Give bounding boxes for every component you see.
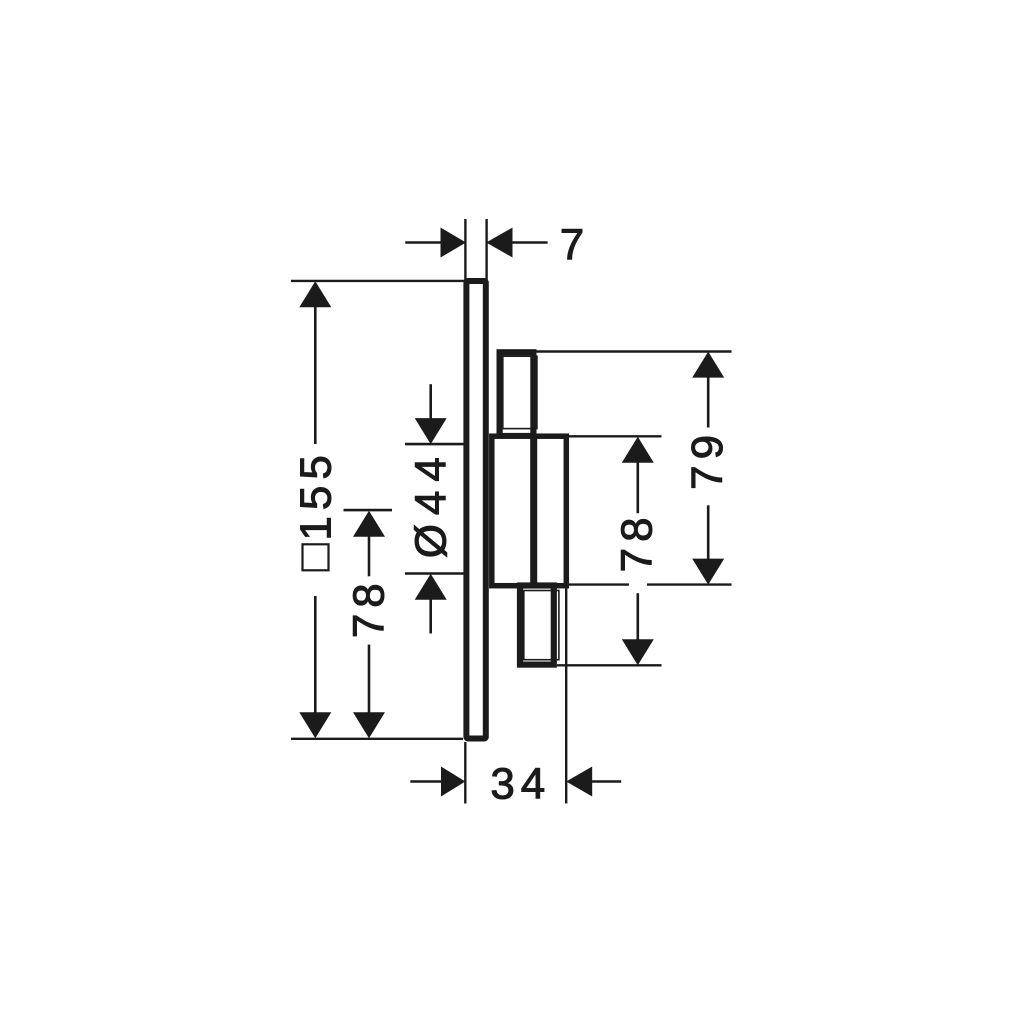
dimension 78-right: down arrow [622,639,654,665]
svg-text:34: 34 [490,759,551,808]
dimension diameter 44: lower stem [429,599,432,634]
dimension 78-left: up arrow [353,511,385,537]
svg-text:Ø44: Ø44 [407,448,456,558]
dimension 34: line tails [410,780,442,783]
dimension 78-right: up arrow [622,437,654,463]
dimension 155: line lower segment [314,596,317,714]
dimension 34: arrow left-pointing [566,767,592,797]
extension line top-left (155 top) [291,280,465,282]
svg-text:79: 79 [683,429,732,490]
dimension 7: arrow left-pointing [486,228,512,258]
dimension 155: down arrow [299,712,331,738]
upper handle inner face line (thin rectangle) [503,356,537,428]
tick diameter 44 top [405,443,467,446]
dimension 155: line upper segment [314,306,317,444]
upper handle (outer rectangle) [500,352,534,436]
dimension 7: line tails [405,241,440,244]
extension line 79 top [536,350,732,352]
tick diameter 44 bottom [405,572,467,575]
extension line 78-right bottom [557,664,662,666]
extension line bottom-left (155 bottom) [291,738,463,740]
dimension 79: down arrow [692,559,724,585]
dimension 79: line lower segment [707,505,710,559]
valve body (outer rectangle) [492,436,567,586]
valve body divider line [530,434,537,584]
svg-text:78: 78 [345,577,394,638]
dimension diameter 44: upper stem [429,384,432,419]
dimension 78-left: down arrow [353,712,385,738]
tick 78-left top [344,509,393,512]
dimension 155: square symbol [303,544,329,570]
svg-text:7: 7 [560,220,584,269]
dimension diameter 44: up arrow (tip on bottom tick) [415,574,447,600]
dimension 78-right: line lower segment [636,593,639,640]
wall plate (side view, tall thin rectangle) [466,281,485,739]
extension line 34 left [464,742,466,804]
dimension 78-left: line lower segment [368,645,371,714]
extension line 78-right top [566,435,662,437]
lower handle (outer rectangle) [520,586,554,665]
dimension 155: up arrow [299,281,331,307]
dimension 79: line upper segment [707,376,710,427]
extension line 7-dim left [464,219,466,281]
extension line 7-dim right [485,219,487,281]
dimension 34: arrow right-pointing [441,767,465,797]
lower handle inner face line (thin rectangle) [524,591,559,660]
dimension 79: up arrow [692,352,724,378]
dimension diameter 44: down arrow (tip on top tick) [415,418,447,444]
dimension 78-right: line upper segment [636,462,639,514]
extension line 34 right [565,588,567,804]
dimension 7: arrow right-pointing [441,228,467,258]
svg-text:78: 78 [613,511,662,572]
svg-text:155: 155 [292,449,341,540]
extension line 79 bottom (two segments with gap at crossing) [569,583,629,585]
dimension 78-left: line upper segment [368,536,371,577]
